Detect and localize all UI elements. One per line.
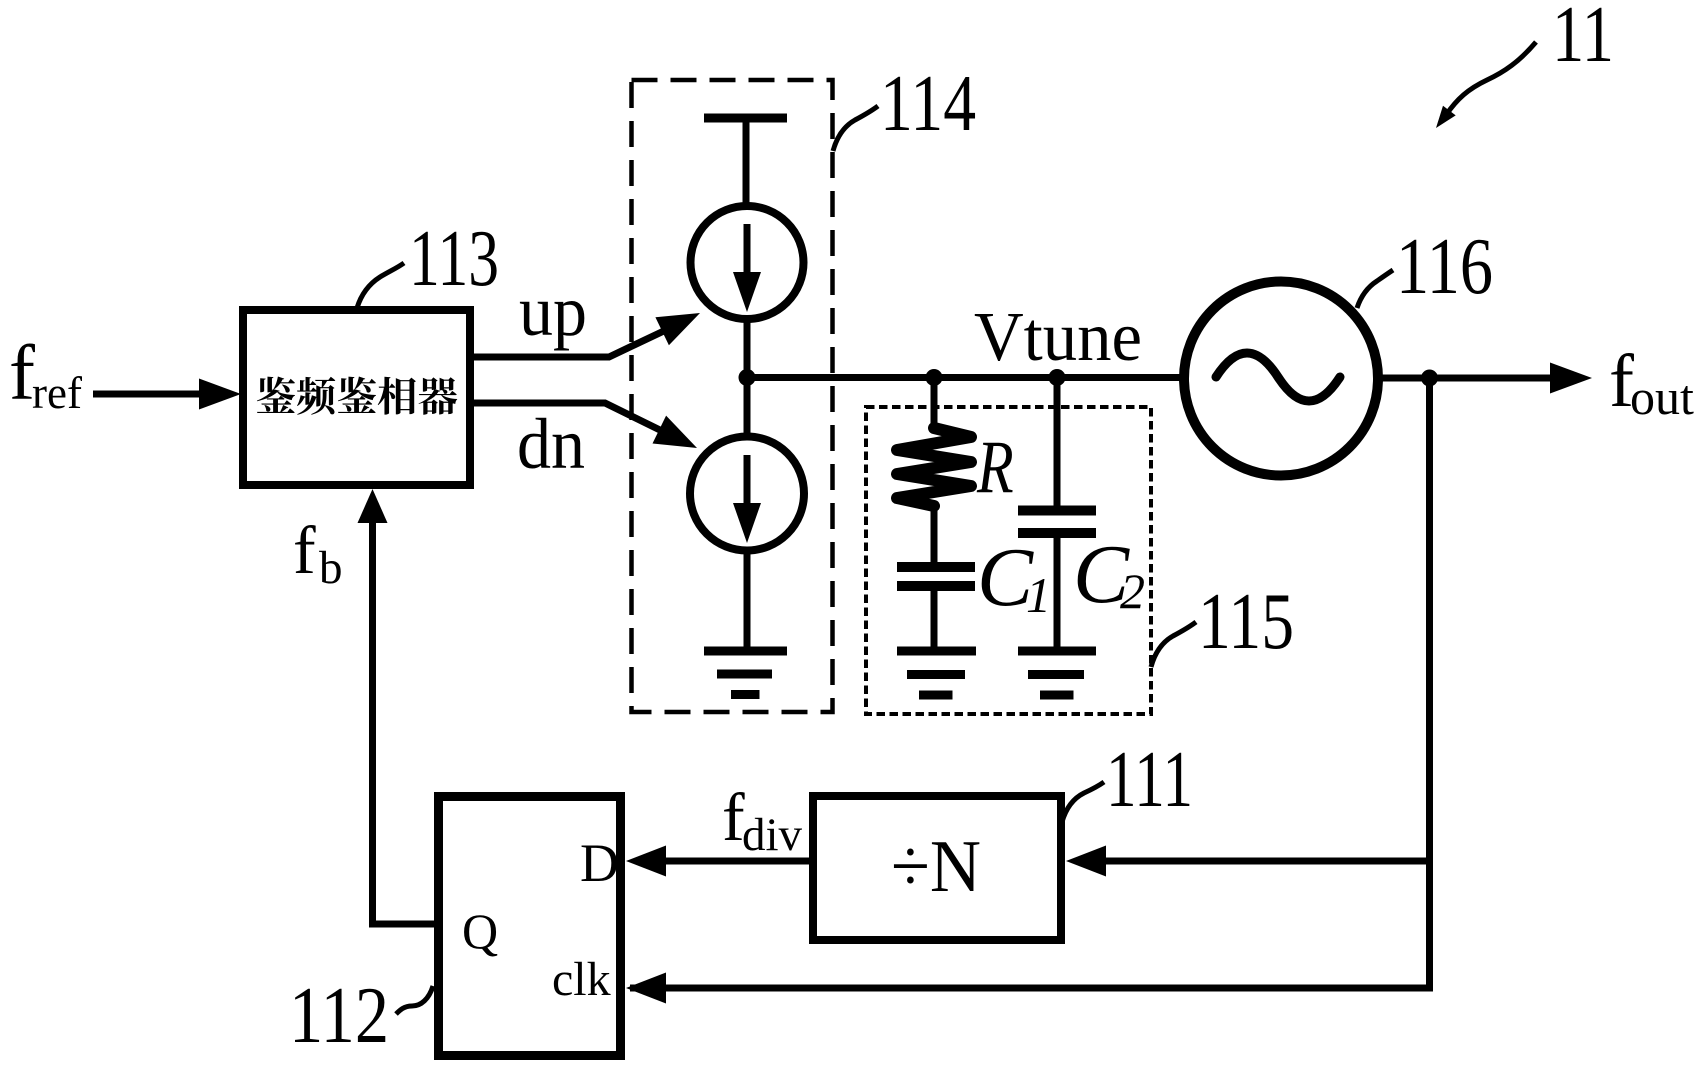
wire dn (PFD to current source I2) (474, 403, 664, 432)
flip-flop block 112 (439, 797, 621, 1056)
wire C2 to ground (1054, 537, 1061, 651)
arrowhead f_b into PFD (358, 489, 388, 523)
divider block 111 (÷N) (813, 796, 1061, 940)
wire Q output to PFD (f_b) (373, 519, 439, 924)
svg-text:Vtune: Vtune (974, 299, 1142, 376)
resistor R (897, 428, 971, 506)
svg-text:11: 11 (1552, 0, 1614, 79)
VCO sine symbol (1216, 353, 1340, 401)
svg-text:1: 1 (1026, 567, 1051, 623)
leader line 114 (833, 106, 878, 151)
svg-text:2: 2 (1120, 563, 1145, 619)
leader line 115 (1151, 622, 1196, 667)
charge pump dashed box 114 (632, 80, 833, 712)
capacitor C2 (1018, 511, 1096, 534)
VCO 116 circle (1184, 282, 1378, 476)
wire VCO to f_out (1378, 375, 1552, 382)
wire charge pump output (744, 319, 751, 436)
svg-text:115: 115 (1198, 578, 1294, 666)
wire resistor to C1 (931, 503, 938, 562)
wire f_div (divider to D) (664, 858, 809, 865)
leader line 116 (1357, 270, 1393, 308)
arrowhead up (655, 313, 700, 345)
current source I2 arrow (744, 455, 751, 505)
ground (charge pump) (704, 651, 787, 695)
arrowhead dn (653, 416, 698, 448)
leader line 111 (1062, 782, 1104, 822)
wire Vtune (747, 374, 1186, 381)
svg-text:111: 111 (1106, 736, 1193, 824)
svg-text:div: div (742, 809, 803, 861)
svg-text:up: up (519, 271, 587, 351)
current source I1 (up) circle (691, 206, 804, 319)
arrowhead into D (626, 846, 666, 877)
svg-text:113: 113 (409, 215, 499, 303)
arrowhead clk input (626, 973, 666, 1004)
wire up (PFD to current source I1) (474, 329, 668, 357)
arrowhead f_out (1550, 363, 1592, 394)
current source I1 arrow (744, 224, 751, 274)
svg-text:D: D (580, 833, 619, 893)
svg-text:÷N: ÷N (891, 826, 981, 908)
wire feedback (f_out down to clk) (630, 378, 1430, 988)
leader arrow for label 11 (1446, 42, 1536, 115)
wire feedback branch to divider (1104, 858, 1430, 865)
arrowhead into divider (1066, 846, 1106, 877)
leader line 112 (396, 986, 433, 1014)
PFD block 113 (鉴频鉴相器) (243, 310, 470, 485)
svg-text:out: out (1630, 369, 1694, 425)
arrowhead f_ref into PFD (199, 379, 241, 410)
svg-text:clk: clk (552, 953, 611, 1006)
svg-text:ref: ref (32, 368, 82, 418)
svg-text:Q: Q (462, 903, 498, 959)
wire node to C2 (1054, 378, 1061, 509)
ground (C2) (1018, 651, 1096, 695)
power rail (supply bar) (704, 114, 787, 123)
junction node R branch (926, 369, 943, 386)
PFD text 鉴频鉴相器 (257, 376, 457, 414)
junction node C2 branch (1049, 369, 1066, 386)
wire I2 to ground (744, 550, 751, 651)
svg-text:b: b (319, 542, 343, 594)
wire C1 to ground (931, 590, 938, 651)
svg-text:114: 114 (880, 60, 976, 148)
wire node to resistor (931, 378, 938, 431)
capacitor C1 (897, 567, 975, 586)
junction node charge pump output (739, 369, 756, 386)
ground (C1) (897, 651, 976, 695)
current source I2 (down) circle (690, 437, 804, 551)
svg-text:116: 116 (1396, 223, 1493, 311)
wire f_ref input (93, 391, 205, 398)
leader line 113 (357, 263, 404, 308)
svg-text:f: f (293, 512, 316, 588)
svg-text:112: 112 (289, 972, 389, 1060)
svg-text:dn: dn (517, 404, 585, 484)
svg-text:R: R (976, 425, 1014, 509)
junction node f_out (1421, 370, 1438, 387)
loop filter dotted box 115 (866, 407, 1151, 714)
